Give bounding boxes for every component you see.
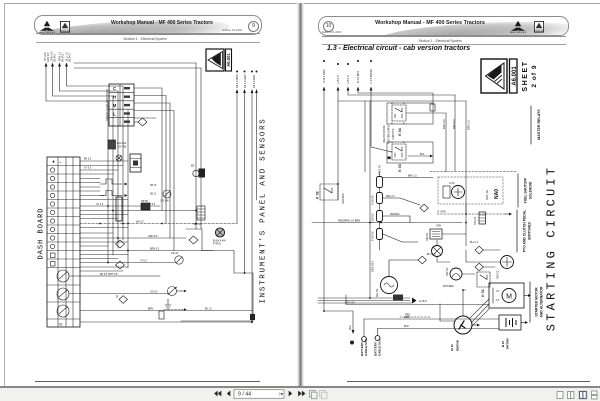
wire row 250 bbox=[80, 250, 213, 252]
right edition text bbox=[322, 30, 364, 34]
left page left border bbox=[4, 3, 5, 386]
svg-text:PTO AND CLUTCH PEDAL: PTO AND CLUTCH PEDAL bbox=[523, 210, 527, 252]
svg-text:SW 02: SW 02 bbox=[496, 270, 500, 279]
svg-text:A 16.0 RED: A 16.0 RED bbox=[322, 69, 326, 83]
svg-text:SHEET: SHEET bbox=[522, 60, 529, 91]
center page divider bbox=[297, 3, 304, 386]
svg-text:BATTERY: BATTERY bbox=[506, 338, 509, 349]
dash lamp wire stub 2 bbox=[51, 51, 113, 96]
dashed RED wire bbox=[400, 316, 430, 318]
staircase return wire bbox=[181, 229, 253, 321]
svg-text:K 01: K 01 bbox=[481, 289, 485, 297]
left long vertical K02 feed bbox=[337, 101, 339, 200]
cluster gauge tacho bbox=[57, 305, 69, 327]
svg-text:RED/BLK: RED/BLK bbox=[390, 214, 400, 216]
svg-text:B 03: B 03 bbox=[501, 341, 505, 347]
oil pressure gauge bbox=[171, 252, 183, 264]
svg-text:+15 1.5: +15 1.5 bbox=[336, 75, 340, 84]
switch interconnect wires bbox=[437, 234, 500, 274]
buzzer bbox=[191, 164, 205, 178]
svg-text:SOL 02: SOL 02 bbox=[485, 190, 489, 200]
svg-text:BRN 6.0: BRN 6.0 bbox=[452, 119, 456, 129]
connector diamond D4 bbox=[475, 263, 483, 271]
right banner title bbox=[350, 20, 510, 26]
vertical label PTO AND CLUTCH PEDAL SWITCHES bbox=[517, 210, 532, 252]
toolbar view-mode icons bbox=[554, 390, 599, 400]
svg-text:SWITCHES: SWITCHES bbox=[528, 221, 532, 240]
svg-text:STARTING CIRCUIT: STARTING CIRCUIT bbox=[545, 165, 559, 331]
connector diamond B bbox=[116, 240, 125, 248]
fuse FUS04 bbox=[371, 229, 418, 243]
fuse FUS05 bbox=[371, 193, 420, 206]
main horizontal RED/BROWN wire bbox=[312, 222, 462, 224]
top bus wire A bbox=[74, 62, 196, 64]
battery box bbox=[499, 315, 528, 349]
svg-text:FUS 04: FUS 04 bbox=[371, 231, 375, 241]
svg-text:NA0: NA0 bbox=[494, 189, 500, 199]
terminal blob B bbox=[350, 341, 354, 345]
wire row 238 bbox=[80, 237, 186, 239]
ground arrow right bbox=[505, 213, 509, 215]
junction blob under K03 bbox=[388, 157, 391, 160]
vertical label STARTER MOTOR AND ALTERNATOR bbox=[530, 282, 544, 322]
svg-text:RED: RED bbox=[404, 315, 410, 319]
warning symbol right page bbox=[481, 59, 518, 93]
wire row mid 1 bbox=[80, 205, 160, 207]
ECU component box bbox=[108, 140, 127, 149]
supply stub B bbox=[336, 63, 466, 101]
relay K04 bbox=[391, 103, 406, 136]
cluster gauge temp bbox=[57, 288, 69, 300]
right edge connector blob bbox=[250, 314, 255, 320]
vertical bus x370 bbox=[369, 101, 371, 298]
relay K01 bbox=[477, 272, 490, 297]
relay K02 bbox=[316, 184, 346, 204]
svg-text:MASTER SUPPLY: MASTER SUPPLY bbox=[388, 124, 391, 144]
dash lamp wire stub 4 bbox=[65, 52, 123, 86]
ignition feed wires bbox=[440, 290, 466, 321]
cluster gauge pilot lamps bbox=[50, 168, 55, 266]
svg-text:BRN 1.5: BRN 1.5 bbox=[408, 176, 417, 178]
MF logo right bbox=[509, 20, 527, 33]
dashed separator wire bbox=[430, 171, 517, 173]
svg-text:K 04: K 04 bbox=[398, 128, 402, 136]
AGCO logo right bbox=[534, 21, 544, 33]
MF logo left bbox=[38, 20, 56, 33]
battery cable stub 2 bbox=[373, 329, 381, 357]
AGCO logo left bbox=[60, 21, 70, 33]
vertical label FUEL SHUTOFF SOLENOID bbox=[518, 174, 533, 207]
fuse FUS07 bbox=[377, 165, 434, 188]
sensor stub 3 top right bbox=[251, 71, 257, 322]
cluster gauge fuel bbox=[57, 270, 69, 282]
svg-text:SOLENOID: SOLENOID bbox=[529, 181, 533, 199]
PTO switch SW02 bbox=[496, 256, 514, 280]
svg-text:C 2.5 BRN/R: C 2.5 BRN/R bbox=[369, 69, 373, 84]
battery cable wire 2 bbox=[378, 328, 500, 330]
svg-text:30A: 30A bbox=[348, 325, 352, 330]
hourmeter component bbox=[141, 200, 150, 210]
page top border left bbox=[4, 3, 299, 4]
converging starter wires bbox=[470, 299, 489, 327]
vertical label MASTER RELAYS bbox=[531, 106, 541, 144]
bulb lamp 4.4W bbox=[213, 228, 226, 246]
svg-text:RED 16.0: RED 16.0 bbox=[371, 260, 375, 272]
vertical bus x365 bbox=[364, 101, 366, 172]
circled page number 10 bbox=[323, 21, 334, 32]
right page heading 1.3 bbox=[327, 45, 470, 52]
master relay outer box K03 bbox=[387, 142, 433, 163]
junction dots right page bbox=[323, 183, 467, 312]
svg-text:A 16.0: A 16.0 bbox=[419, 299, 427, 303]
svg-text:MASTER RELAYS: MASTER RELAYS bbox=[537, 109, 541, 140]
page top border right bbox=[303, 3, 600, 4]
battery cable bus bbox=[318, 298, 412, 303]
connector diamond strip bottom bbox=[119, 296, 127, 304]
wire row 262 bbox=[80, 262, 175, 264]
svg-text:FUEL SHUTOFF: FUEL SHUTOFF bbox=[524, 178, 528, 204]
down arrow 30A bbox=[352, 330, 355, 334]
left section rule bottom bbox=[36, 41, 260, 44]
STA01 component bbox=[473, 212, 485, 225]
wire row 276 arrow bbox=[69, 275, 160, 277]
wire row mid 2 bbox=[80, 210, 196, 212]
svg-text:BLK: BLK bbox=[404, 324, 409, 328]
svg-text:BLU 1.0: BLU 1.0 bbox=[470, 242, 479, 244]
svg-text:CABLE 50.0: CABLE 50.0 bbox=[364, 339, 368, 356]
top bus wire B bbox=[74, 67, 201, 69]
svg-text:IG 01: IG 01 bbox=[450, 344, 454, 351]
solenoid SOL44 bbox=[193, 206, 205, 226]
svg-text:RED 2.5: RED 2.5 bbox=[386, 196, 395, 198]
connector diamond A bbox=[189, 236, 198, 244]
right section label bbox=[355, 39, 525, 43]
svg-text:GE 01: GE 01 bbox=[375, 288, 379, 297]
wires from indicator to right bbox=[134, 88, 162, 211]
svg-text:RED/BRN: RED/BRN bbox=[342, 193, 345, 204]
starter cable wire bbox=[346, 295, 489, 305]
supply stub C bbox=[346, 63, 455, 95]
left section rule top bbox=[36, 32, 260, 35]
svg-text:RELAY K03/K04: RELAY K03/K04 bbox=[383, 125, 386, 142]
svg-text:AND ALTERNATOR: AND ALTERNATOR bbox=[540, 286, 544, 318]
connector diamond D3 bbox=[475, 246, 483, 254]
ignition switch bbox=[450, 316, 480, 351]
instrument cluster connector strip bbox=[47, 157, 80, 327]
connector diamond near indicator bbox=[134, 118, 147, 126]
svg-text:GRN: GRN bbox=[436, 226, 441, 228]
switch SW03 box bbox=[425, 229, 442, 241]
battery cable wire 1 bbox=[364, 318, 499, 320]
right vertical feed B bbox=[465, 101, 467, 246]
svg-text:BLK: BLK bbox=[420, 153, 425, 156]
temperature sender bbox=[168, 287, 187, 296]
battery tap component bbox=[430, 104, 435, 111]
switch glyph 1 bbox=[100, 179, 122, 184]
K03 ground wire bbox=[408, 155, 430, 157]
master relay outer box K04 bbox=[387, 103, 433, 124]
dashed LT GREEN wire bbox=[437, 213, 505, 215]
wire row 293 arrow bbox=[69, 293, 168, 295]
fuse link wires bbox=[379, 172, 381, 250]
svg-text:STARTER MOTOR: STARTER MOTOR bbox=[535, 287, 539, 317]
right section rule top bbox=[322, 35, 566, 38]
sensor stub 4 top right bbox=[255, 71, 258, 201]
left section label bbox=[60, 37, 230, 41]
left banner title bbox=[82, 20, 242, 26]
supply stub D bbox=[356, 60, 433, 105]
switch glyph 2 bbox=[100, 191, 122, 196]
svg-text:2 of 9: 2 of 9 bbox=[531, 64, 538, 87]
vertical bus lines center bbox=[107, 101, 109, 262]
right section rule bottom bbox=[322, 43, 566, 46]
svg-text:BLU 1.0: BLU 1.0 bbox=[427, 254, 436, 256]
connector diamond D2 bbox=[418, 256, 426, 264]
sensor stub 1 top right bbox=[235, 71, 239, 224]
header banner left bbox=[34, 15, 262, 35]
svg-text:+15 1.0: +15 1.0 bbox=[346, 75, 350, 84]
svg-text:CABLE 50.0: CABLE 50.0 bbox=[377, 339, 381, 356]
svg-text:IGNITION: IGNITION bbox=[456, 340, 459, 351]
svg-text:SW 03: SW 03 bbox=[425, 233, 429, 241]
svg-text:K 03: K 03 bbox=[398, 164, 402, 172]
svg-text:SW 01: SW 01 bbox=[445, 267, 449, 276]
svg-text:WHT/RED: WHT/RED bbox=[443, 286, 454, 288]
bottom cable junction bbox=[324, 311, 353, 330]
toolbar nav controls bbox=[210, 388, 330, 400]
dashed sensor wire row bbox=[80, 223, 237, 225]
ground sender symbol bbox=[165, 299, 171, 309]
connector diamond D1 bbox=[420, 204, 428, 212]
wire row 322 bbox=[80, 321, 252, 323]
right page footer rule bbox=[347, 381, 590, 382]
relay K03 bbox=[391, 142, 406, 172]
switch plunger circle bbox=[432, 246, 443, 257]
svg-text:CIRCUITS: CIRCUITS bbox=[393, 128, 395, 139]
long vertical wire right B bbox=[200, 68, 202, 229]
NA0 dashed box fuel shutoff bbox=[438, 177, 503, 204]
clutch switch SW01 bbox=[445, 267, 462, 280]
fuse FUS03 bbox=[371, 211, 410, 224]
speed light indicator module bbox=[105, 84, 134, 126]
gauge small circle mid bbox=[160, 190, 171, 203]
wire row 310 bbox=[80, 310, 252, 312]
supply stub E bbox=[369, 60, 392, 152]
svg-text:B 2.5 BRN: B 2.5 BRN bbox=[356, 71, 360, 83]
extra pin rows bbox=[80, 215, 128, 272]
alternator bbox=[375, 260, 418, 297]
sensor stub 2 top right bbox=[243, 71, 247, 274]
svg-text:LT GRN: LT GRN bbox=[437, 210, 446, 213]
resistor tall box bbox=[116, 197, 122, 221]
svg-text:M: M bbox=[506, 293, 512, 300]
connector diamond C bbox=[116, 261, 125, 269]
left page footer rule bbox=[35, 381, 260, 382]
sender box small bbox=[159, 311, 164, 319]
dash lamp wire stub 1 bbox=[44, 52, 108, 101]
svg-text:A6.001: A6.001 bbox=[512, 66, 518, 86]
svg-text:RED 16.0: RED 16.0 bbox=[345, 303, 356, 305]
SV1B component box bbox=[130, 154, 141, 172]
svg-text:BRN 4.0: BRN 4.0 bbox=[442, 119, 446, 129]
svg-text:K 02: K 02 bbox=[316, 191, 320, 199]
svg-text:FUS 05: FUS 05 bbox=[371, 195, 375, 205]
svg-text:C 03: C 03 bbox=[449, 181, 455, 185]
svg-text:RED/BRN 1.5 BRN: RED/BRN 1.5 BRN bbox=[338, 218, 360, 222]
battery cable stub 1 bbox=[360, 319, 368, 356]
solenoid feed wire bbox=[465, 204, 467, 214]
cluster pin wires dense bbox=[80, 161, 128, 200]
svg-text:BRN 1.5: BRN 1.5 bbox=[467, 120, 471, 130]
junction dots left page bbox=[107, 205, 245, 274]
pilot lamp 12V3W bbox=[116, 155, 122, 161]
dashed sender wire bbox=[164, 309, 184, 311]
relay label text block bbox=[383, 124, 395, 144]
starter motor box bbox=[489, 283, 531, 308]
header banner right bbox=[318, 16, 569, 36]
warning symbol left page bbox=[206, 49, 232, 71]
tiny wire labels right page bbox=[345, 176, 479, 305]
K04 output wire bbox=[406, 113, 446, 172]
supply stub A bbox=[322, 60, 326, 311]
tiny wire labels left page bbox=[84, 159, 213, 311]
svg-text:STA 01: STA 01 bbox=[473, 216, 477, 225]
dash lamp wire stub 3 bbox=[58, 51, 118, 91]
right vertical feed A bbox=[454, 95, 456, 171]
long vertical wire right A bbox=[195, 63, 197, 229]
left edition text bbox=[200, 28, 242, 32]
svg-text:FUS 03: FUS 03 bbox=[371, 213, 375, 223]
circled page number 9 bbox=[248, 21, 259, 32]
fuse link dark box bbox=[393, 295, 403, 301]
